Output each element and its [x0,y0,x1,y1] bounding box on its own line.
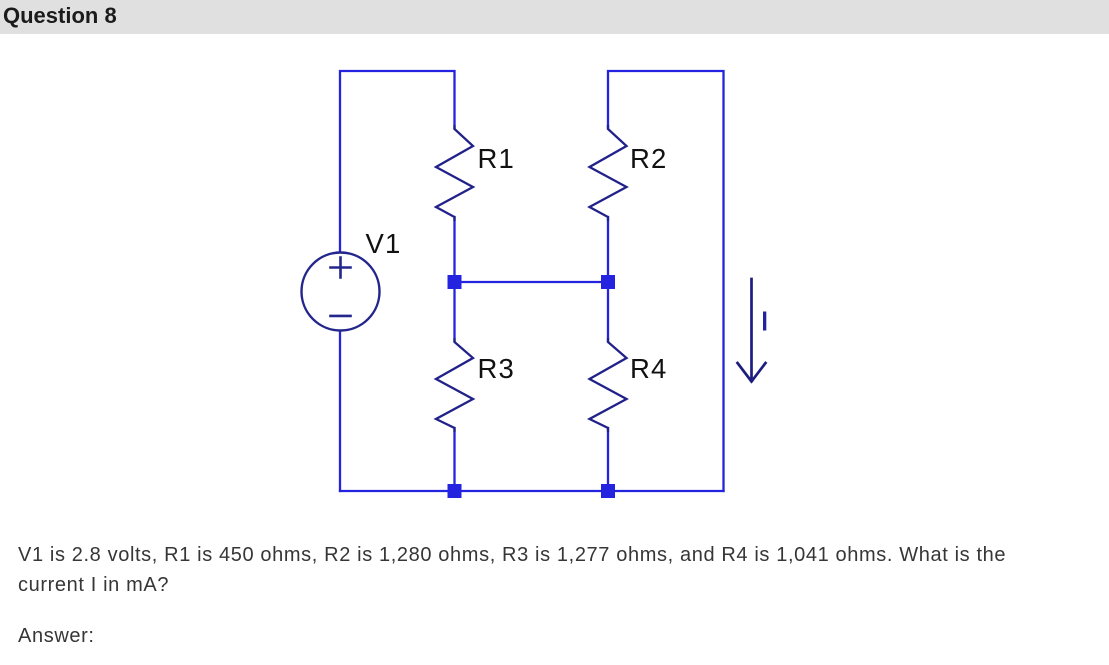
resistor R2 [590,126,627,220]
wire bottom horizontal [340,490,724,492]
junction node D (R4 bottom) [601,484,615,498]
resistor R1 [436,126,473,220]
junction node B (R2/R4 middle) [601,275,615,289]
svg-text:R2: R2 [630,143,668,174]
svg-text:R4: R4 [630,353,668,384]
wire top-right horizontal [608,71,724,491]
wire R2 to node B [607,217,609,282]
wire left vertical below V1 [339,331,341,491]
wire middle horizontal node A to node B [455,281,609,283]
wire R1 to middle node [453,217,455,282]
current arrow I [738,279,766,382]
svg-text:R3: R3 [478,353,516,384]
wire R3 to bottom [453,428,455,491]
junction node A (R1/R3 middle) [448,275,462,289]
junction node C (R3 bottom) [448,484,462,498]
svg-text:V1: V1 [366,228,402,259]
V1 plus sign [331,258,351,278]
wire top-left horizontal [340,71,455,252]
resistor R3 [436,339,473,431]
V1 minus sign [331,315,351,318]
wire node B to R4 [607,282,609,341]
resistor R4 [590,339,627,431]
voltage source V1 circle [302,253,380,331]
wire R4 to bottom [607,428,609,491]
svg-text:R1: R1 [478,143,516,174]
label I (current) [763,312,766,331]
wire middle node to R3 [453,282,455,341]
